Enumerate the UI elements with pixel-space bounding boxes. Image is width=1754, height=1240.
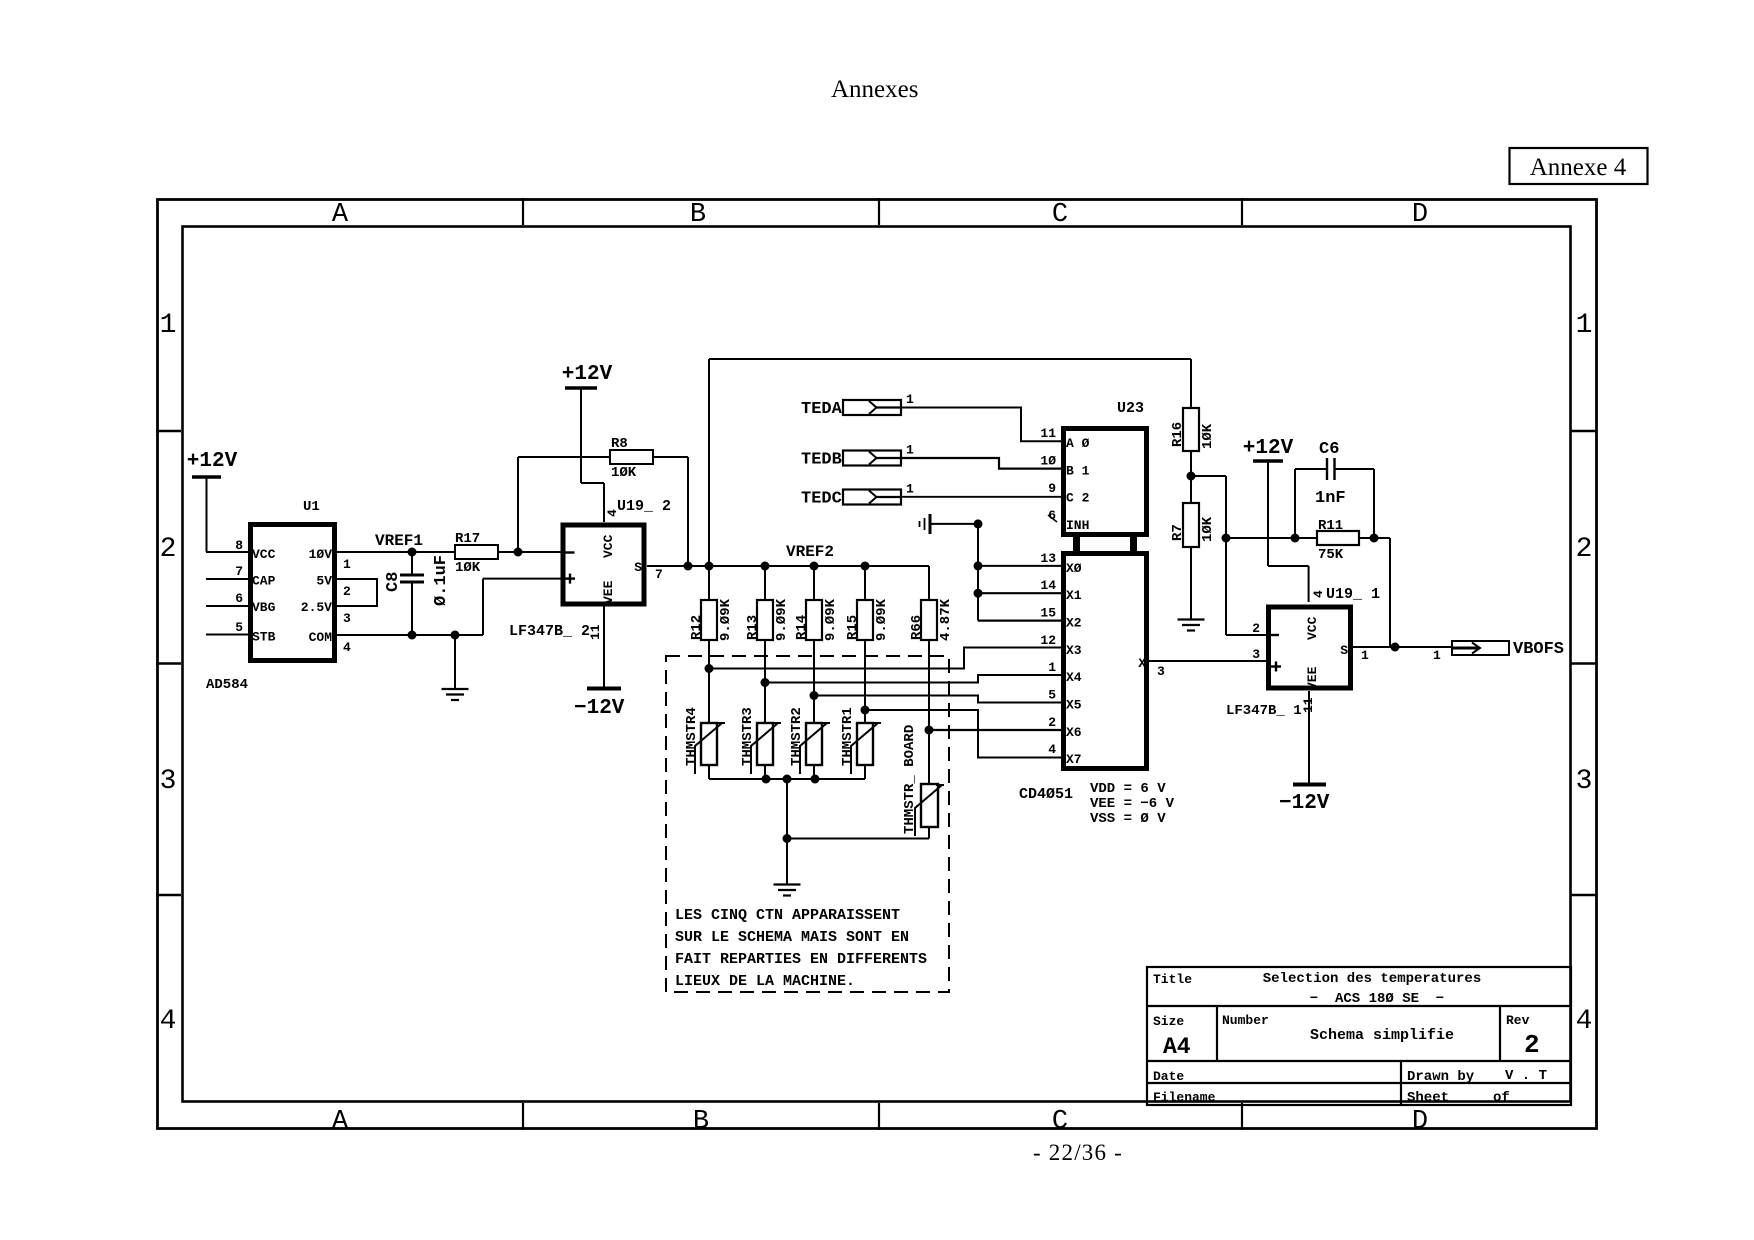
svg-text:3: 3 bbox=[1252, 647, 1260, 662]
svg-text:Sheet: Sheet bbox=[1407, 1090, 1449, 1106]
svg-text:CAP: CAP bbox=[252, 574, 276, 589]
svg-text:XØ: XØ bbox=[1066, 561, 1082, 576]
svg-text:Rev: Rev bbox=[1506, 1013, 1530, 1028]
svg-text:X7: X7 bbox=[1066, 752, 1082, 767]
svg-text:THMSTR1: THMSTR1 bbox=[840, 707, 856, 766]
svg-text:D: D bbox=[1412, 200, 1428, 230]
svg-text:C 2: C 2 bbox=[1066, 491, 1090, 506]
svg-text:1ØK: 1ØK bbox=[1200, 423, 1216, 449]
svg-text:THMSTR2: THMSTR2 bbox=[789, 707, 805, 766]
svg-text:U23: U23 bbox=[1117, 400, 1144, 417]
svg-text:+12V: +12V bbox=[562, 363, 613, 386]
svg-text:A: A bbox=[332, 200, 349, 230]
svg-text:Date: Date bbox=[1153, 1069, 1184, 1084]
svg-text:X1: X1 bbox=[1066, 588, 1082, 603]
svg-text:1ØV: 1ØV bbox=[309, 547, 333, 562]
svg-text:LES CINQ CTN APPARAISSENT: LES CINQ CTN APPARAISSENT bbox=[675, 907, 900, 924]
svg-text:4: 4 bbox=[1048, 742, 1056, 757]
svg-text:1: 1 bbox=[1048, 660, 1056, 675]
svg-text:U1: U1 bbox=[303, 499, 320, 515]
svg-text:13: 13 bbox=[1040, 551, 1056, 566]
svg-text:2: 2 bbox=[1048, 715, 1056, 730]
svg-text:12: 12 bbox=[1040, 633, 1056, 648]
svg-text:X4: X4 bbox=[1066, 670, 1082, 685]
svg-text:Schema simplifie: Schema simplifie bbox=[1310, 1027, 1454, 1044]
svg-text:1ØK: 1ØK bbox=[455, 560, 481, 576]
svg-text:VREF2: VREF2 bbox=[786, 543, 834, 561]
svg-text:U19_ 1: U19_ 1 bbox=[1326, 586, 1380, 603]
svg-text:AD584: AD584 bbox=[206, 677, 248, 693]
svg-text:1: 1 bbox=[906, 482, 914, 497]
svg-text:Title: Title bbox=[1153, 972, 1192, 987]
svg-text:VCC: VCC bbox=[252, 547, 276, 562]
svg-text:5: 5 bbox=[235, 620, 243, 635]
svg-text:FAIT REPARTIES EN DIFFERENTS: FAIT REPARTIES EN DIFFERENTS bbox=[675, 951, 927, 968]
svg-text:S: S bbox=[1340, 643, 1348, 658]
svg-text:CD4Ø51: CD4Ø51 bbox=[1019, 786, 1073, 803]
svg-text:7: 7 bbox=[655, 567, 663, 582]
svg-text:− ACS 18Ø SE −: − ACS 18Ø SE − bbox=[1310, 991, 1444, 1007]
svg-text:4: 4 bbox=[343, 640, 351, 655]
svg-text:X5: X5 bbox=[1066, 698, 1082, 713]
svg-text:2: 2 bbox=[1576, 534, 1593, 565]
svg-text:11: 11 bbox=[588, 624, 603, 640]
svg-text:R14: R14 bbox=[794, 615, 810, 640]
svg-text:4: 4 bbox=[1576, 1006, 1593, 1037]
svg-text:Selection des temperatures: Selection des temperatures bbox=[1263, 971, 1481, 987]
svg-text:Ø.1uF: Ø.1uF bbox=[432, 555, 451, 606]
svg-text:R11: R11 bbox=[1318, 518, 1343, 534]
svg-text:2: 2 bbox=[1524, 1030, 1540, 1060]
svg-text:X: X bbox=[1138, 656, 1146, 671]
svg-text:3: 3 bbox=[1576, 766, 1593, 797]
svg-text:R13: R13 bbox=[745, 615, 761, 640]
svg-text:VBOFS: VBOFS bbox=[1513, 640, 1564, 659]
svg-text:3: 3 bbox=[1157, 664, 1165, 679]
svg-text:1: 1 bbox=[1361, 648, 1369, 663]
svg-text:2: 2 bbox=[343, 584, 351, 599]
svg-text:R17: R17 bbox=[455, 531, 480, 547]
svg-text:Size: Size bbox=[1153, 1014, 1184, 1029]
svg-text:B: B bbox=[690, 200, 706, 230]
svg-text:R16: R16 bbox=[1170, 422, 1186, 447]
svg-text:4: 4 bbox=[160, 1006, 177, 1037]
svg-text:C: C bbox=[1052, 1107, 1068, 1137]
svg-text:R8: R8 bbox=[611, 436, 628, 452]
svg-text:SUR LE SCHEMA MAIS SONT EN: SUR LE SCHEMA MAIS SONT EN bbox=[675, 929, 909, 946]
svg-text:of: of bbox=[1493, 1090, 1510, 1106]
svg-text:TEDA: TEDA bbox=[801, 400, 843, 419]
svg-text:- 22/36 -: - 22/36 - bbox=[1033, 1140, 1123, 1165]
svg-text:TEDB: TEDB bbox=[801, 451, 842, 470]
svg-text:1ØK: 1ØK bbox=[611, 465, 637, 481]
svg-text:1: 1 bbox=[906, 392, 914, 407]
svg-text:1ØK: 1ØK bbox=[1200, 516, 1216, 542]
svg-text:4: 4 bbox=[1311, 590, 1326, 598]
svg-text:A4: A4 bbox=[1163, 1034, 1191, 1060]
svg-text:THMSTR3: THMSTR3 bbox=[740, 707, 756, 766]
svg-text:VCC: VCC bbox=[601, 534, 616, 558]
svg-text:2.5V: 2.5V bbox=[301, 600, 332, 615]
svg-text:C: C bbox=[1052, 200, 1068, 230]
svg-text:R66: R66 bbox=[909, 615, 925, 640]
svg-text:6: 6 bbox=[235, 591, 243, 606]
svg-text:LF347B_ 1: LF347B_ 1 bbox=[1226, 703, 1302, 719]
svg-text:A Ø: A Ø bbox=[1066, 436, 1090, 451]
svg-text:14: 14 bbox=[1040, 578, 1056, 593]
svg-text:8: 8 bbox=[235, 538, 243, 553]
svg-text:VEE: VEE bbox=[601, 580, 616, 604]
svg-text:7: 7 bbox=[235, 564, 243, 579]
svg-text:X3: X3 bbox=[1066, 643, 1082, 658]
svg-text:Filename: Filename bbox=[1153, 1090, 1216, 1105]
svg-text:75K: 75K bbox=[1318, 547, 1344, 563]
svg-text:X2: X2 bbox=[1066, 616, 1082, 631]
svg-text:S: S bbox=[634, 560, 642, 575]
svg-text:R7: R7 bbox=[1170, 524, 1186, 541]
svg-text:2: 2 bbox=[1252, 621, 1260, 636]
svg-text:V . T: V . T bbox=[1505, 1068, 1547, 1084]
svg-text:1nF: 1nF bbox=[1315, 489, 1346, 508]
svg-text:VEE = −6 V: VEE = −6 V bbox=[1090, 796, 1175, 812]
svg-text:INH: INH bbox=[1066, 518, 1089, 533]
svg-text:5: 5 bbox=[1048, 688, 1056, 703]
svg-text:VBG: VBG bbox=[252, 600, 276, 615]
svg-text:11: 11 bbox=[1040, 426, 1056, 441]
svg-text:−12V: −12V bbox=[1279, 792, 1330, 815]
svg-text:5V: 5V bbox=[316, 574, 332, 589]
svg-text:STB: STB bbox=[252, 630, 276, 645]
svg-text:1: 1 bbox=[1433, 648, 1441, 663]
svg-text:9: 9 bbox=[1048, 481, 1056, 496]
svg-text:6: 6 bbox=[1048, 508, 1056, 523]
svg-text:Drawn by: Drawn by bbox=[1407, 1069, 1475, 1085]
svg-text:9.Ø9K: 9.Ø9K bbox=[874, 598, 890, 641]
svg-text:A: A bbox=[332, 1107, 349, 1137]
svg-text:9.Ø9K: 9.Ø9K bbox=[823, 598, 839, 641]
svg-text:B 1: B 1 bbox=[1066, 464, 1090, 479]
svg-text:VSS = Ø V: VSS = Ø V bbox=[1090, 811, 1166, 827]
svg-text:COM: COM bbox=[309, 630, 333, 645]
svg-text:VEE: VEE bbox=[1305, 666, 1320, 690]
svg-text:B: B bbox=[693, 1107, 709, 1137]
svg-text:1: 1 bbox=[343, 557, 351, 572]
svg-text:THMSTR4: THMSTR4 bbox=[684, 707, 700, 766]
svg-text:C6: C6 bbox=[1319, 440, 1339, 459]
svg-text:R12: R12 bbox=[689, 615, 705, 640]
svg-text:Number: Number bbox=[1222, 1013, 1269, 1028]
svg-text:LIEUX DE LA MACHINE.: LIEUX DE LA MACHINE. bbox=[675, 973, 855, 990]
svg-text:D: D bbox=[1412, 1107, 1428, 1137]
svg-text:15: 15 bbox=[1040, 606, 1056, 621]
svg-text:3: 3 bbox=[343, 611, 351, 626]
svg-text:+12V: +12V bbox=[1243, 437, 1294, 460]
svg-text:1Ø: 1Ø bbox=[1040, 454, 1056, 469]
svg-text:4.87K: 4.87K bbox=[938, 598, 954, 641]
svg-text:VDD = 6 V: VDD = 6 V bbox=[1090, 781, 1166, 797]
svg-text:1: 1 bbox=[906, 443, 914, 458]
svg-text:−12V: −12V bbox=[574, 697, 625, 720]
svg-text:X6: X6 bbox=[1066, 725, 1082, 740]
svg-text:1: 1 bbox=[160, 310, 177, 341]
svg-text:Annexe 4: Annexe 4 bbox=[1530, 154, 1627, 181]
svg-text:VREF1: VREF1 bbox=[375, 532, 423, 550]
svg-text:3: 3 bbox=[160, 766, 177, 797]
svg-text:9.Ø9K: 9.Ø9K bbox=[774, 598, 790, 641]
svg-text:TEDC: TEDC bbox=[801, 490, 842, 509]
svg-text:1: 1 bbox=[1576, 310, 1593, 341]
svg-text:+12V: +12V bbox=[187, 450, 238, 473]
svg-text:U19_ 2: U19_ 2 bbox=[617, 498, 671, 515]
svg-text:Annexes: Annexes bbox=[831, 76, 918, 103]
svg-text:VCC: VCC bbox=[1305, 616, 1320, 640]
svg-text:R15: R15 bbox=[845, 615, 861, 640]
svg-text:9.Ø9K: 9.Ø9K bbox=[718, 598, 734, 641]
svg-text:LF347B_ 2: LF347B_ 2 bbox=[509, 623, 590, 640]
svg-text:2: 2 bbox=[160, 534, 177, 565]
svg-text:C8: C8 bbox=[384, 572, 403, 592]
